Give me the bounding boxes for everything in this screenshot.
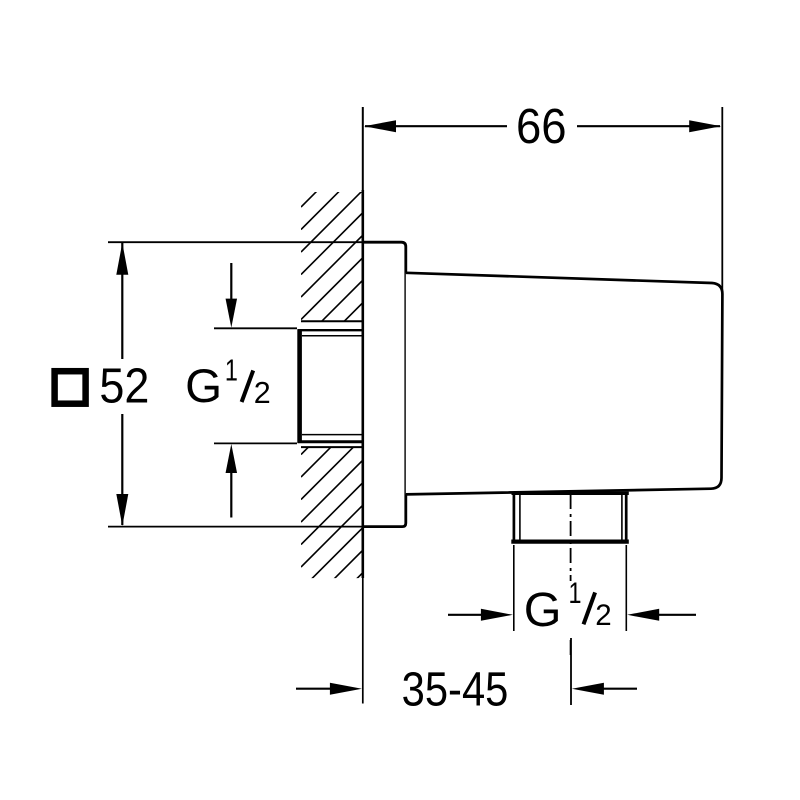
svg-text:1: 1 (569, 577, 582, 610)
svg-text:2: 2 (595, 599, 611, 632)
svg-text:35-45: 35-45 (402, 664, 509, 717)
svg-text:G: G (524, 583, 562, 637)
svg-text:52: 52 (99, 359, 149, 414)
svg-text:G: G (185, 360, 222, 413)
svg-text:66: 66 (516, 99, 567, 154)
svg-text:2: 2 (254, 376, 271, 410)
svg-text:1: 1 (225, 353, 238, 388)
